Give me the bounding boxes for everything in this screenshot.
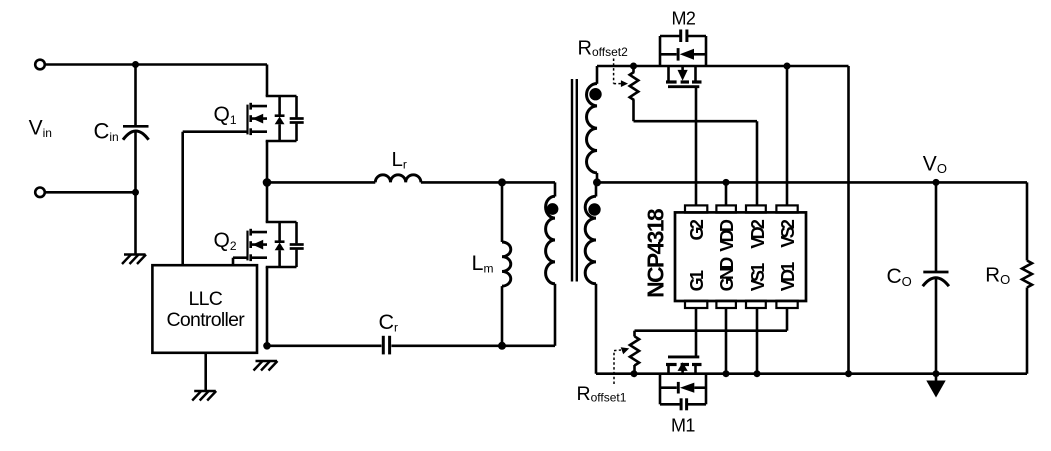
svg-text:VD1: VD1 [778,262,798,292]
svg-text:GND: GND [717,257,737,292]
svg-text:VS1: VS1 [748,263,768,292]
svg-text:G1: G1 [687,270,707,291]
svg-text:Controller: Controller [167,309,246,331]
svg-text:M1: M1 [671,416,695,436]
svg-text:VS2: VS2 [778,219,798,248]
svg-text:VD2: VD2 [748,219,768,249]
svg-text:G2: G2 [687,219,707,240]
svg-text:M2: M2 [672,9,696,29]
svg-text:VDD: VDD [717,219,737,252]
svg-text:LLC: LLC [188,288,222,310]
svg-text:NCP4318: NCP4318 [643,208,669,298]
